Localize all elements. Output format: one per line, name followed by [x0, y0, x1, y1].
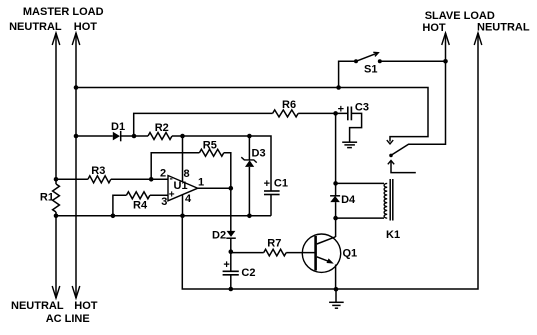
- wire relay coil bottom lead: [336, 217, 384, 219]
- svg-text:R2: R2: [155, 122, 169, 134]
- svg-text:NEUTRAL: NEUTRAL: [477, 22, 530, 34]
- wire R4 to opamp pin3: [150, 194, 168, 196]
- svg-text:+: +: [169, 189, 175, 200]
- svg-text:D4: D4: [341, 194, 356, 206]
- wire R2 to C1 corner: [172, 136, 271, 191]
- svg-text:D2: D2: [212, 230, 226, 242]
- resistor R4: [126, 192, 149, 199]
- label D2: [212, 230, 226, 242]
- wire slave-hot line to armature: [392, 33, 446, 155]
- wire opamp supply: [182, 136, 184, 216]
- svg-text:Q1: Q1: [343, 248, 358, 260]
- node R7 junction: [229, 249, 234, 254]
- diode D1: [113, 131, 148, 141]
- label R2: [155, 122, 169, 134]
- node slave-hot S1 junction: [443, 59, 448, 64]
- svg-text:+: +: [264, 178, 270, 190]
- label HOT slave: [422, 22, 446, 34]
- label HOT master: [74, 21, 98, 33]
- node ground rail C2: [229, 287, 234, 292]
- node relay bottom junction: [333, 216, 338, 221]
- wire R7 to Q1 base: [286, 252, 314, 254]
- svg-text:HOT: HOT: [422, 22, 446, 34]
- wire C3 to ground: [350, 113, 362, 141]
- svg-text:S1: S1: [364, 64, 377, 76]
- wire D2 to C2: [230, 238, 232, 271]
- label U1 minus: [170, 173, 173, 184]
- inductor K1 coil: [384, 183, 387, 218]
- label pin 3: [161, 196, 167, 208]
- label pin 1: [198, 177, 204, 189]
- wire D2 to R7: [231, 252, 264, 254]
- node mid-rail supply: [180, 214, 185, 219]
- node D3 top junction: [247, 134, 252, 139]
- label SLAVE LOAD: [425, 10, 495, 22]
- label C3 plus: [338, 104, 344, 116]
- ground main: [329, 289, 344, 308]
- ground C3: [342, 142, 357, 147]
- label NEUTRAL slave: [477, 22, 530, 34]
- label C2: [241, 267, 255, 279]
- wire R1 to R3: [56, 178, 88, 180]
- wire slave-neutral and ground rail: [182, 33, 478, 289]
- wire relay coil top lead: [336, 182, 384, 184]
- svg-text:R6: R6: [282, 99, 296, 111]
- node D1-R2 junction: [132, 134, 137, 139]
- wire Q1 collector up: [335, 218, 337, 237]
- svg-text:MASTER LOAD: MASTER LOAD: [23, 6, 104, 18]
- svg-text:SLAVE LOAD: SLAVE LOAD: [425, 10, 495, 22]
- label C1: [274, 178, 288, 190]
- label C2 plus: [223, 259, 229, 271]
- svg-text:U1: U1: [174, 180, 188, 192]
- label C3: [355, 102, 369, 114]
- svg-text:HOT: HOT: [74, 21, 98, 33]
- label K1: [386, 229, 400, 241]
- node R3 junction at R1: [54, 177, 59, 182]
- svg-text:1: 1: [198, 177, 204, 189]
- arrow S1 arm tip: [373, 52, 378, 56]
- label D3: [252, 148, 266, 160]
- wire R5 right leg: [224, 153, 231, 188]
- resistor R3: [88, 176, 111, 183]
- switch S1 pole: [354, 59, 358, 63]
- svg-text:R5: R5: [203, 140, 217, 152]
- label MASTER LOAD: [23, 6, 104, 18]
- svg-text:NEUTRAL: NEUTRAL: [11, 300, 64, 312]
- op-amp U1: [168, 176, 198, 201]
- wire R5 left leg: [151, 153, 199, 180]
- wire opamp output: [198, 187, 231, 189]
- label R5: [203, 140, 217, 152]
- resistor R2: [148, 133, 172, 140]
- label AC LINE: [46, 313, 90, 325]
- arrow master-neutral bottom: [52, 286, 60, 298]
- wire S1 to slave hot: [380, 60, 446, 62]
- wire R6 line: [134, 113, 273, 136]
- wire R4 left leg: [113, 195, 127, 216]
- arrow master-hot top: [72, 33, 80, 45]
- svg-text:4: 4: [185, 193, 192, 205]
- node D1 anode junction: [74, 134, 79, 139]
- wire master-hot line: [75, 33, 77, 298]
- node relay armature contact: [389, 154, 393, 158]
- node R5 tap junction: [149, 177, 154, 182]
- wire C1 bottom to rail: [270, 195, 272, 216]
- capacitor C1: [264, 191, 280, 195]
- svg-text:R3: R3: [91, 165, 105, 177]
- svg-text:3: 3: [161, 196, 167, 208]
- node relay top junction: [333, 181, 338, 186]
- arrow slave-neutral top: [474, 33, 482, 45]
- node output R5 junction: [229, 186, 234, 191]
- svg-text:HOT: HOT: [74, 300, 98, 312]
- svg-text:2: 2: [160, 167, 166, 179]
- svg-text:8: 8: [184, 168, 190, 180]
- svg-text:AC LINE: AC LINE: [46, 313, 90, 325]
- label R4: [133, 200, 148, 212]
- svg-text:R7: R7: [267, 238, 281, 250]
- wire S1 left lead: [339, 61, 355, 87]
- label R7: [267, 238, 281, 250]
- transistor Q1: [302, 234, 340, 272]
- arrow master-hot bottom: [72, 286, 80, 298]
- svg-text:R1: R1: [40, 192, 54, 204]
- label NEUTRAL master: [9, 21, 62, 33]
- wire C2 to ground rail: [230, 275, 232, 289]
- svg-text:+: +: [338, 104, 344, 116]
- wire hot to D1: [76, 135, 113, 137]
- label HOT ac-line: [74, 300, 98, 312]
- node R2 output junction: [180, 134, 185, 139]
- wire R6 to C3 junction: [298, 112, 348, 114]
- label Q1: [343, 248, 358, 260]
- label pin 8: [184, 168, 190, 180]
- wire hot rail to relay contact: [76, 88, 428, 142]
- label R6: [282, 99, 296, 111]
- svg-text:D3: D3: [252, 148, 266, 160]
- node R6 C3 junction: [333, 111, 338, 116]
- resistor R1: [53, 184, 60, 212]
- switch S1 arm: [356, 53, 377, 61]
- svg-text:R4: R4: [133, 200, 148, 212]
- relay K1 core: [390, 179, 393, 221]
- arrow relay moving contact: [388, 161, 394, 165]
- label R3: [91, 165, 105, 177]
- label D4: [341, 194, 356, 206]
- label U1: [174, 180, 188, 192]
- wire R3 to opamp pin2: [111, 178, 168, 180]
- label R1: [40, 192, 54, 204]
- diode D4: [330, 196, 340, 218]
- arrow master-neutral top: [52, 33, 60, 45]
- wire master-neutral line: [55, 33, 57, 298]
- node mid-rail R4: [111, 214, 116, 219]
- label pin 4: [185, 193, 192, 205]
- label pin 2: [160, 167, 166, 179]
- svg-text:NEUTRAL: NEUTRAL: [9, 21, 62, 33]
- wire mid rail: [56, 215, 271, 217]
- node ground rail Q1 junction: [334, 287, 339, 292]
- diode D3 zener: [241, 157, 256, 167]
- diode D2: [226, 231, 236, 238]
- switch S1 throw: [378, 59, 382, 63]
- diode D3 leads: [248, 136, 250, 216]
- node mid-rail R1: [54, 214, 59, 219]
- label S1: [364, 64, 377, 76]
- svg-text:C1: C1: [274, 178, 288, 190]
- wire Q1 emitter down: [335, 265, 337, 290]
- node S1 branch junction: [336, 85, 341, 90]
- svg-text:-: -: [170, 173, 173, 184]
- label D1: [111, 121, 125, 133]
- wire C3junction down to relay: [335, 113, 337, 195]
- label U1 plus: [169, 189, 175, 200]
- node mid-rail D3: [247, 214, 252, 219]
- resistor R7: [264, 249, 287, 256]
- arrow relay fixed contact: [387, 140, 393, 144]
- wire relay contact stub: [391, 162, 416, 173]
- capacitor C2: [223, 271, 239, 275]
- resistor R5: [199, 149, 223, 156]
- node hot-rail junction at master hot: [74, 85, 79, 90]
- svg-text:C3: C3: [355, 102, 369, 114]
- label NEUTRAL ac-line: [11, 300, 64, 312]
- label C1 plus: [264, 178, 270, 190]
- svg-text:C2: C2: [241, 267, 255, 279]
- svg-text:D1: D1: [111, 121, 125, 133]
- wire output down to D2: [230, 188, 232, 231]
- resistor R6: [273, 110, 299, 117]
- svg-text:K1: K1: [386, 229, 400, 241]
- capacitor C3: [348, 107, 352, 121]
- svg-text:+: +: [223, 259, 229, 271]
- arrow slave-hot top: [442, 33, 450, 45]
